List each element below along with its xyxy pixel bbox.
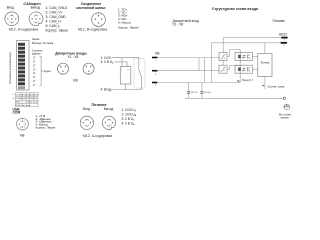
connector X1 (M8) — [58, 63, 69, 74]
wire rail1 drop — [222, 38, 224, 66]
svg-text:Выход: Выход — [31, 6, 41, 10]
svg-text:4: 4 — [107, 125, 108, 127]
svg-text:4: 4 — [85, 125, 86, 127]
pin list CANopen — [46, 6, 69, 32]
svg-text:5: CAN_L: 5: CAN_L — [46, 24, 61, 28]
connector J1 CANopen input (M12 female) — [5, 12, 19, 26]
terminal stub pin 3 — [152, 82, 158, 84]
capacitor C1 — [188, 83, 190, 92]
svg-text:4: 4 — [20, 126, 21, 128]
wire logic supply — [264, 43, 266, 54]
pins J1 — [7, 15, 16, 24]
wire logic to system bus — [264, 77, 266, 90]
terminal stub pin 1 — [152, 57, 158, 59]
svg-text:Вход: Вход — [7, 6, 14, 10]
svg-text:270 нФ: 270 нФ — [191, 91, 198, 94]
tick under 24V stub — [284, 39, 286, 41]
connector J4 USB service — [17, 118, 29, 130]
pins J2 — [31, 15, 40, 24]
pin numbers X1 — [58, 65, 68, 75]
svg-text:М8: М8 — [20, 133, 25, 137]
pin numbers X2 — [84, 65, 94, 75]
comparator U2 row2 — [219, 65, 227, 73]
svg-text:Корпус: Экран: Корпус: Экран — [118, 25, 139, 29]
pin numbers J3 — [95, 14, 102, 27]
svg-text:1: 1 — [85, 120, 86, 122]
wire input 4 — [112, 89, 142, 91]
pin numbers J4 — [20, 121, 25, 128]
svg-text:3: 3 — [110, 125, 111, 127]
terminal block X10 — [17, 41, 30, 91]
wire comparator1 to opto1 (over) — [227, 50, 240, 83]
svg-text:1: 1 — [107, 120, 108, 122]
svg-text:24 В: 24 В — [16, 102, 21, 104]
ground line — [185, 97, 283, 99]
svg-text:X1 - X8: X1 - X8 — [173, 23, 184, 27]
bracket address byte — [40, 56, 43, 85]
svg-text:X1 - X8: X1 - X8 — [68, 55, 79, 59]
svg-text:М12, В-кодировка: М12, В-кодировка — [78, 28, 107, 32]
svg-text:Адрес: Адрес — [44, 69, 52, 73]
node flag system bus — [263, 85, 265, 87]
svg-text:Корпус: Экран: Корпус: Экран — [46, 29, 69, 33]
pin numbers J2 — [33, 15, 38, 23]
svg-text:3: CAN_GND: 3: CAN_GND — [46, 15, 67, 19]
svg-text:Вход 0-7: Вход 0-7 — [243, 78, 254, 82]
wire 24V drop to sensor + — [121, 58, 123, 67]
terminal labels — [32, 37, 54, 87]
svg-text:2: CAN_V+: 2: CAN_V+ — [46, 11, 63, 15]
tick under 0V stub — [283, 44, 285, 46]
svg-text:М12, А-кодировка: М12, А-кодировка — [83, 134, 112, 138]
svg-text:вх.: вх. — [22, 105, 25, 107]
connector power in (M12) — [80, 116, 93, 129]
svg-text:1: 1 — [13, 15, 14, 17]
svg-text:2: 2 — [37, 15, 38, 17]
svg-text:-: - — [121, 69, 122, 72]
pin list USB — [36, 114, 56, 130]
rail 24V — [223, 37, 287, 39]
svg-text:Экран: Экран — [32, 37, 40, 41]
svg-text:1: CAN_SHLD: 1: CAN_SHLD — [46, 6, 68, 10]
wire 0V to sensor — [115, 62, 128, 67]
svg-text:3: 3 — [9, 22, 10, 24]
svg-text:М8: М8 — [73, 79, 78, 83]
wire opto2 to logic — [253, 68, 258, 70]
terminal circle — [283, 97, 285, 99]
pin numbers power out — [107, 120, 112, 127]
svg-text:Логика: Логика — [260, 60, 269, 64]
table address/settings — [15, 93, 38, 107]
svg-text:2: 2 — [9, 15, 10, 17]
svg-text:3: 3 — [38, 22, 39, 24]
svg-text:АИ12: АИ12 — [279, 32, 287, 36]
wire 24V to sensor — [112, 57, 139, 59]
rail 0V connector stub — [281, 42, 287, 44]
alternative contact (dashed) — [134, 59, 145, 88]
svg-text:4: CAN_H: 4: CAN_H — [46, 20, 62, 24]
svg-text:COM: COM — [13, 111, 21, 115]
rail 24V connector stub — [281, 37, 287, 39]
svg-text:Выход: Выход — [104, 107, 114, 111]
svg-text:Вход: Вход — [83, 107, 90, 111]
terminal contacts — [18, 43, 25, 89]
wire — [204, 58, 206, 83]
svg-text:М8: М8 — [155, 52, 160, 56]
svg-text:2: 2 — [88, 120, 89, 122]
svg-text:5: Масса: 5: Масса — [118, 21, 131, 25]
wire pin4 to comparator U2 — [157, 70, 219, 72]
svg-text:1: 1 — [34, 15, 35, 17]
switch contact — [139, 58, 142, 90]
svg-text:4: 0 В UA: 4: 0 В UA — [122, 121, 136, 126]
wire opto1 to logic — [253, 56, 258, 58]
svg-text:Корпус: Экран: Корпус: Экран — [36, 126, 56, 130]
connector J2 CANopen output (M12 male, keyed) — [29, 12, 43, 26]
wire sensor output — [125, 84, 127, 90]
sensor S1 — [120, 67, 131, 84]
wire rail2 drop — [210, 43, 212, 83]
wire pin1 to comparator U1 — [157, 57, 219, 59]
connector X2 (M8) — [83, 63, 94, 74]
pin list system bus — [118, 7, 139, 29]
connector power out (M12 keyed) — [102, 116, 115, 129]
chassis earth symbol — [284, 104, 290, 110]
svg-text:4: 4 — [33, 22, 34, 24]
connector J3 system bus (M12) — [92, 13, 106, 27]
svg-text:3: 3 — [24, 126, 25, 128]
pin list power — [122, 108, 137, 126]
comparator U1 row1 — [219, 53, 227, 61]
svg-text:270 нФ: 270 нФ — [204, 91, 211, 94]
wire — [198, 58, 200, 71]
svg-text:Питание: Питание — [273, 19, 286, 23]
optocoupler ISO1 row1 — [235, 53, 253, 61]
pins power out — [105, 119, 114, 127]
svg-text:вх.: вх. — [30, 102, 33, 104]
pins X1 — [60, 66, 66, 72]
svg-text:2: 2 — [110, 120, 111, 122]
pins J3 — [95, 15, 103, 23]
terminal stub pin 4 — [152, 70, 158, 72]
svg-text:3: 3 — [88, 125, 89, 127]
svg-text:М12, А-кодировка: М12, А-кодировка — [9, 28, 38, 32]
pins X2 — [86, 66, 92, 72]
svg-text:1: 1 — [20, 121, 21, 123]
pins J4 — [19, 121, 26, 128]
svg-text:Систем. шина: Систем. шина — [267, 85, 284, 89]
svg-text:Клеммы управления: Клеммы управления — [8, 52, 12, 83]
table cell texts — [16, 94, 39, 107]
capacitor C2 — [201, 83, 203, 92]
pin numbers J1 — [9, 15, 14, 23]
node flag input 0-7 — [238, 80, 241, 82]
optocoupler ISO2 row2 — [235, 65, 253, 73]
logic block U3 — [258, 54, 272, 77]
svg-text:панель: панель — [281, 117, 290, 120]
rail 0V — [211, 42, 287, 44]
pins power in — [83, 119, 92, 127]
svg-text:4: 4 — [13, 22, 14, 24]
pin numbers power in — [85, 120, 90, 127]
svg-text:4: Вход: 4: Вход — [101, 88, 112, 92]
wire pin3 0V — [157, 82, 240, 84]
svg-text:Вперёд / Останов: Вперёд / Останов — [32, 41, 54, 45]
svg-text:Структурная схема входа: Структурная схема входа — [212, 7, 258, 11]
svg-text:системной шины:: системной шины: — [76, 6, 106, 10]
svg-text:2: 2 — [24, 121, 25, 123]
svg-text:3: 0 В UB: 3: 0 В UB — [101, 60, 115, 65]
wire comparator2 to opto2 (over) — [227, 66, 240, 70]
svg-text:адреса: адреса — [32, 52, 41, 55]
